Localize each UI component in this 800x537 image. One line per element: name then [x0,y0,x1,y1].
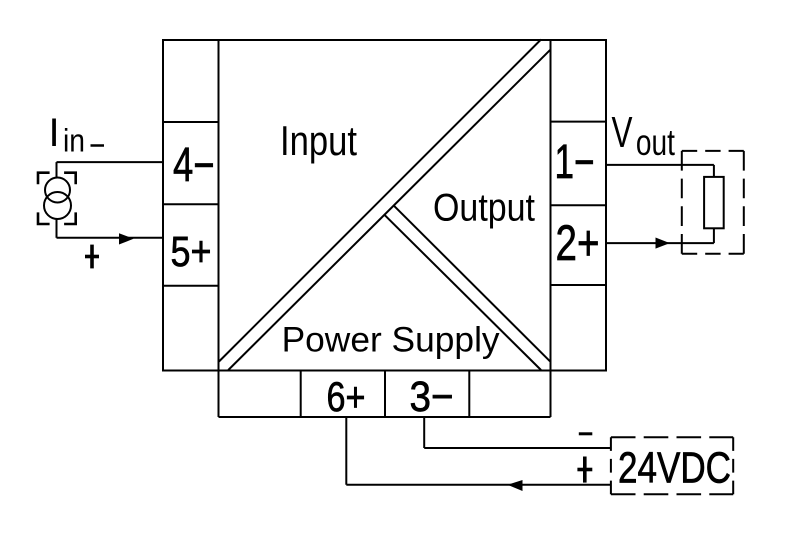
svg-text:out: out [636,122,676,163]
svg-text:Power Supply: Power Supply [282,320,500,360]
svg-text:24VDC: 24VDC [618,444,731,493]
svg-text:4−: 4− [173,139,215,192]
svg-text:I: I [49,111,60,155]
svg-text:in: in [63,123,85,159]
svg-text:3−: 3− [410,373,454,421]
svg-text:Output: Output [433,187,535,230]
svg-text:5+: 5+ [171,228,212,276]
svg-text:1−: 1− [555,136,595,189]
svg-text:V: V [612,108,633,157]
svg-text:6+: 6+ [327,373,366,420]
svg-text:Input: Input [280,117,357,164]
svg-text:2+: 2+ [556,215,600,271]
